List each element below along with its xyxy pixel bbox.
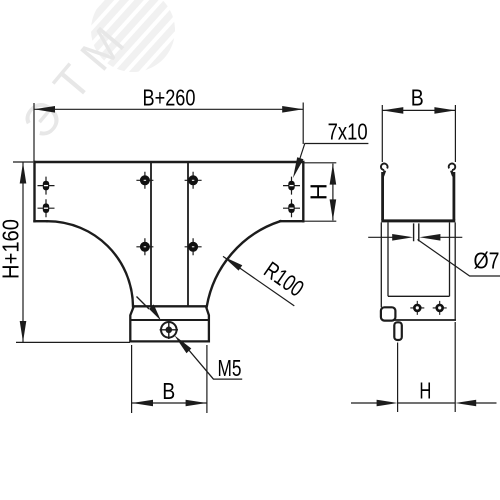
svg-text:M5: M5 (218, 355, 242, 381)
dimension B (front bottom) (132, 345, 207, 413)
svg-text:7x10: 7x10 (328, 119, 368, 145)
front view: outline of T-body (35, 162, 304, 306)
side view: leg outer-right line (454, 222, 456, 319)
bar bottom-left flat (35, 220, 48, 222)
side view: leg inner-right line (449, 222, 451, 296)
hole column upper-right (185, 172, 202, 189)
leader M5 upper segment (137, 297, 150, 310)
side view: leg outer-left line (380, 222, 382, 307)
side view: hanging tab (394, 322, 402, 340)
svg-text:H: H (419, 378, 431, 404)
side view: left rolled hook (381, 164, 388, 176)
hole column lower-right (185, 238, 202, 255)
leader R100 (223, 256, 294, 306)
bar top edge (35, 161, 304, 163)
hole left flange top (7x10) (38, 177, 55, 195)
watermark text ETM (12, 17, 135, 148)
side view: leg inner-left line (387, 222, 389, 296)
dimension O7 arrows (368, 236, 462, 238)
hole column lower-left (136, 238, 153, 255)
hole left flange bottom (7x10) (38, 199, 55, 217)
side view: right rail (452, 172, 455, 220)
screw M5 head (160, 321, 178, 339)
svg-text:H+160: H+160 (0, 219, 24, 279)
front view: inner column lines (151, 163, 188, 306)
coupler block outline (130, 306, 209, 341)
leader M5 lower segment with shelf (188, 349, 243, 380)
block mid line (130, 319, 209, 321)
watermark logo stripes (73, 0, 194, 91)
svg-text:B: B (411, 85, 424, 111)
dimension B+260 (34, 103, 303, 162)
right R100 curve (207, 221, 280, 306)
side view: leg bottom line (388, 319, 456, 321)
bar left edge (33, 162, 35, 221)
bar right edge (302, 162, 304, 221)
leader 7x10 (296, 144, 368, 171)
side view: O7 slot lines (414, 223, 419, 241)
hole column upper-left (136, 172, 153, 189)
side view: left rail (381, 172, 384, 220)
svg-text:Ø7: Ø7 (474, 248, 500, 274)
svg-text:B+260: B+260 (143, 85, 196, 111)
side view: bottom hole right (433, 301, 447, 315)
hole right flange bottom (7x10) (283, 199, 300, 217)
side view: tray bottom plate (381, 219, 455, 222)
side view: foot tab (381, 307, 396, 320)
hole right flange top (7x10) (283, 177, 300, 195)
side view: leg inner horizontal (388, 295, 450, 297)
leader O7 (418, 240, 500, 277)
svg-text:B: B (162, 378, 175, 404)
side view: bottom hole left (410, 301, 424, 315)
bar bottom-right flat (280, 220, 303, 222)
side view: B dimension (382, 105, 455, 162)
dimension H+160 (13, 162, 130, 342)
svg-text:H: H (306, 183, 332, 200)
dimension H (side bottom) (351, 322, 497, 412)
dimension H (front right) (305, 163, 337, 221)
side view: right rolled hook (449, 164, 456, 176)
left R100 curve (47, 221, 133, 306)
